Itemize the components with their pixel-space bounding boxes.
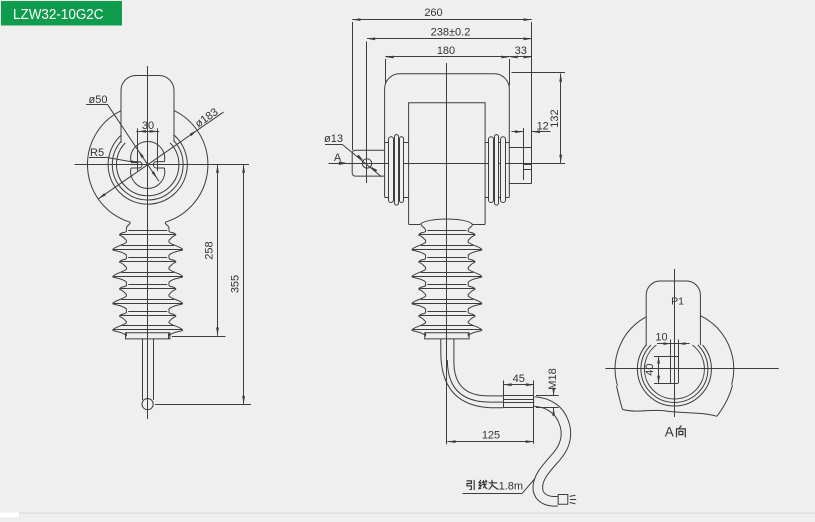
- svg-text:ø183: ø183: [193, 106, 220, 130]
- front view lead length label: [463, 479, 536, 494]
- svg-text:132: 132: [549, 109, 561, 127]
- svg-text:LZW32-10G2C: LZW32-10G2C: [13, 6, 104, 23]
- front view insulator sheds: [412, 224, 482, 335]
- left view bottom rod: [143, 339, 154, 400]
- svg-text:260: 260: [424, 7, 442, 19]
- A-view vertical centerline: [674, 269, 676, 417]
- left view head outline: [121, 76, 174, 143]
- front view core window: [409, 103, 486, 225]
- left view dimension 258: [172, 165, 226, 337]
- left view dimension R5 leader: [89, 147, 139, 163]
- svg-text:355: 355: [229, 275, 241, 293]
- A-view horizontal centerline: [605, 368, 778, 370]
- svg-text:45: 45: [513, 373, 525, 385]
- svg-text:ø13: ø13: [324, 133, 343, 145]
- A-view dimension 10: [655, 332, 689, 345]
- front view dimension 125: [447, 430, 534, 444]
- front view mounting tab: [352, 150, 384, 176]
- left view core ring circles: [108, 135, 187, 205]
- svg-text:33: 33: [515, 45, 527, 57]
- front view housing dome: [420, 219, 472, 224]
- svg-text:238±0.2: 238±0.2: [431, 26, 471, 38]
- front view wire end connector: [558, 495, 576, 505]
- front view lead wire: [534, 396, 566, 501]
- front view head shell: [385, 74, 510, 198]
- left view dimension 30: [136, 120, 159, 171]
- left view dimension ø183: [98, 106, 223, 199]
- left view outer circle ø183 body: [87, 110, 207, 222]
- left view vertical centerline: [147, 66, 149, 419]
- svg-text:180: 180: [437, 45, 455, 57]
- front view side rib fins: [389, 135, 506, 206]
- title label: [1, 1, 122, 26]
- left view dimension ø50 leader: [86, 94, 159, 181]
- front view dimension 132: [512, 73, 566, 163]
- A-view terminal slot: [654, 340, 679, 384]
- svg-text:P1: P1: [671, 296, 684, 308]
- front view A view arrow: [329, 152, 348, 165]
- front view dimension 45: [503, 373, 534, 386]
- front view dimension 238±0.2: [367, 26, 532, 40]
- left view horizontal centerline: [75, 164, 250, 166]
- A-view bottom break line: [623, 410, 717, 417]
- front view elbow tube: [441, 339, 503, 408]
- svg-text:258: 258: [203, 241, 215, 259]
- svg-text:A: A: [665, 424, 674, 439]
- page bottom edge: [0, 513, 815, 517]
- svg-text:ø50: ø50: [89, 94, 108, 106]
- A-view dimension 40: [644, 356, 660, 383]
- svg-text:A: A: [334, 152, 342, 164]
- front view vertical centerline: [446, 63, 448, 444]
- A-view core rings: [637, 345, 711, 406]
- front view tab hole ø13: [362, 159, 371, 168]
- front view dimension 180: [385, 45, 509, 86]
- front view horizontal centerline: [329, 163, 565, 165]
- svg-text:12: 12: [537, 120, 549, 132]
- A-view outer body outline: [615, 316, 734, 417]
- svg-text:125: 125: [482, 430, 500, 442]
- front view threaded gland: [503, 380, 534, 443]
- front view dimension ø13 leader: [324, 133, 382, 177]
- front view dimension M18: [536, 368, 559, 416]
- svg-text:40: 40: [644, 363, 656, 375]
- svg-text:R5: R5: [90, 147, 104, 159]
- left view rod tip ball: [142, 399, 153, 410]
- front view dimension 33: [510, 45, 532, 59]
- A-view P1 label: [671, 296, 684, 308]
- front view dimension 260: [352, 7, 532, 150]
- left view base flange: [126, 333, 170, 339]
- front view terminal block: [509, 22, 532, 184]
- svg-text:10: 10: [655, 332, 667, 344]
- front view base flange: [425, 333, 469, 339]
- A-view tab outline: [646, 281, 700, 346]
- left view dimension 355: [155, 165, 251, 405]
- svg-text:M18: M18: [547, 368, 559, 389]
- left view insulator sheds: [113, 222, 183, 335]
- front view hole centerline / 238 extension: [366, 42, 368, 184]
- svg-text:1.8m: 1.8m: [499, 481, 523, 493]
- svg-text:30: 30: [142, 120, 154, 132]
- front view dimension 12: [512, 120, 551, 133]
- left view central hole ø50 with key notches: [131, 141, 165, 188]
- A-view title: [665, 424, 686, 439]
